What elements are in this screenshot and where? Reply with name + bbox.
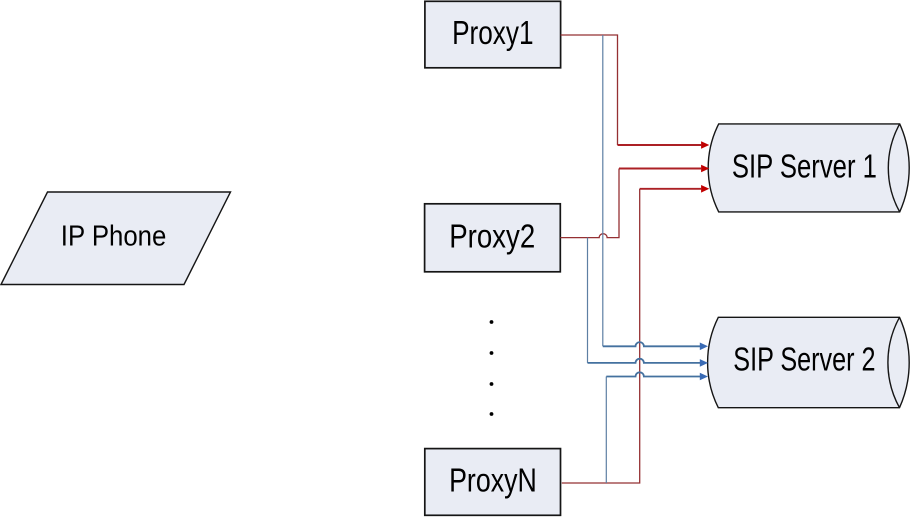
svg-text:Proxy2: Proxy2 bbox=[449, 218, 535, 255]
ProxyN box bbox=[425, 449, 561, 516]
svg-text:SIP Server 1: SIP Server 1 bbox=[732, 148, 877, 185]
wire Proxy1 to SIP Server 1 (red) bbox=[561, 35, 710, 149]
wire Proxy1 to SIP Server 2 (blue, hop over red vertical) bbox=[603, 35, 708, 350]
Proxy1 box bbox=[425, 1, 561, 68]
svg-text:ProxyN: ProxyN bbox=[449, 461, 537, 498]
SIP Server 2 cylinder bbox=[708, 317, 910, 407]
wire ProxyN to SIP Server 2 (blue, hop over red vertical) bbox=[606, 372, 708, 483]
wire ProxyN to SIP Server 1 (red) bbox=[562, 185, 710, 483]
svg-text:Proxy1: Proxy1 bbox=[452, 14, 533, 51]
wire Proxy2 to SIP Server 2 (blue, hop over red vertical) bbox=[588, 238, 709, 367]
svg-text:IP Phone: IP Phone bbox=[61, 220, 167, 252]
svg-text:SIP Server 2: SIP Server 2 bbox=[733, 340, 875, 377]
IP Phone parallelogram bbox=[1, 192, 231, 285]
wire Proxy2 to SIP Server 1 (red, hop over blue) bbox=[560, 165, 709, 238]
vertical ellipsis dots between Proxy2 and ProxyN bbox=[490, 320, 494, 416]
Proxy2 box bbox=[425, 204, 561, 272]
SIP Server 1 cylinder bbox=[708, 124, 909, 212]
